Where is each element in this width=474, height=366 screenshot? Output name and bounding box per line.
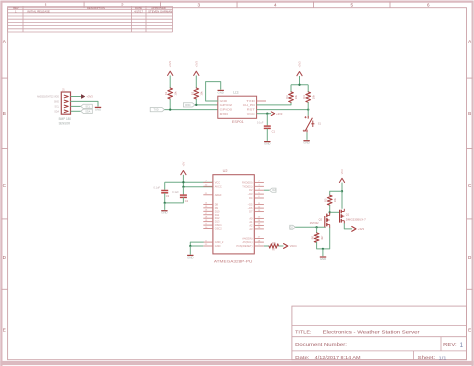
- ground at Q2: [320, 257, 326, 261]
- wire R1 bottom: [169, 99, 171, 110]
- svg-text:A2: A2: [249, 223, 253, 227]
- title block: [292, 306, 467, 361]
- svg-text:+3V3: +3V3: [276, 112, 283, 116]
- svg-text:B: B: [468, 111, 471, 116]
- svg-text:TXD: TXD: [154, 109, 159, 112]
- svg-text:R1: R1: [164, 91, 168, 95]
- ground at ESP01 GND: [218, 90, 224, 94]
- svg-text:GND: GND: [54, 101, 59, 103]
- supply +3V3 above R1: [168, 61, 173, 88]
- svg-text:+3V3: +3V3: [194, 61, 198, 68]
- net flag SDA: [81, 109, 93, 113]
- svg-text:AVCC: AVCC: [215, 184, 222, 188]
- svg-text:R3: R3: [285, 95, 289, 99]
- svg-text:2N7002: 2N7002: [310, 222, 319, 225]
- svg-text:10k: 10k: [200, 91, 204, 96]
- svg-text:Date:: Date:: [295, 355, 310, 360]
- svg-text:1: 1: [460, 342, 464, 349]
- supply +5V above U2: [181, 162, 186, 187]
- wire C2 top: [182, 187, 184, 195]
- svg-text:10k: 10k: [333, 197, 337, 202]
- svg-text:R5: R5: [324, 198, 328, 202]
- wire AVCC rail to U2: [182, 186, 213, 188]
- net flag TXD: [150, 107, 164, 111]
- svg-text:C3: C3: [166, 194, 170, 198]
- svg-text:GND: GND: [161, 211, 167, 215]
- wire RST to R4 and S1: [257, 108, 310, 110]
- wire VCC rail to U2: [165, 181, 213, 183]
- wire J1 pin2 to GND: [71, 101, 99, 106]
- svg-text:+3V3: +3V3: [168, 61, 172, 68]
- svg-text:GND: GND: [303, 141, 309, 145]
- svg-text:~D3: ~D3: [248, 192, 253, 196]
- svg-text:2: 2: [121, 3, 124, 8]
- svg-text:BMP 180: BMP 180: [59, 117, 71, 121]
- svg-text:SENSOR: SENSOR: [59, 122, 71, 126]
- svg-text:1/1: 1/1: [439, 355, 447, 361]
- transistor Q2 2N7002: [310, 212, 330, 228]
- resistor R1: [164, 88, 177, 99]
- svg-text:U3: U3: [233, 90, 239, 95]
- svg-text:D2: D2: [249, 188, 253, 192]
- wire PC6 to R7: [264, 245, 269, 247]
- svg-text:D11: D11: [215, 213, 220, 217]
- svg-text:INITIAL RELEASE: INITIAL RELEASE: [27, 9, 50, 13]
- wire U2 GND pins: [189, 242, 203, 255]
- transistor Q1 DMG2305UX-7: [340, 209, 367, 224]
- svg-text:RXD: RXD: [220, 112, 229, 116]
- svg-text:OSC2: OSC2: [215, 227, 223, 231]
- svg-text:R4: R4: [302, 95, 306, 99]
- wire J1 pin1 to 3V3: [71, 96, 81, 98]
- resistor R7: [269, 241, 279, 252]
- svg-text:GND: GND: [264, 142, 270, 146]
- svg-text:D9: D9: [215, 206, 219, 210]
- ground at J1 pin2: [95, 107, 101, 111]
- wire J1 pin4 to SDA flag: [71, 110, 81, 112]
- resistor R4: [302, 85, 315, 110]
- IC U3 ESP01: [218, 90, 257, 124]
- connector J1 BMP180 sensor: [61, 88, 70, 115]
- supply VCC above Q1: [339, 169, 344, 209]
- svg-text:E: E: [468, 327, 471, 332]
- frame column ticks and numbers: [45, 2, 431, 8]
- svg-text:C2: C2: [185, 199, 189, 203]
- wire R2 bottom: [195, 99, 197, 105]
- svg-text:SCL: SCL: [85, 105, 90, 108]
- svg-text:R7: R7: [272, 248, 276, 252]
- wire node to Q1 gate: [330, 211, 340, 213]
- svg-text:6: 6: [427, 3, 430, 8]
- svg-text:0.1uF: 0.1uF: [172, 190, 179, 194]
- ground at S1: [303, 141, 309, 145]
- svg-text:GND: GND: [218, 90, 224, 94]
- wire C1 to ground: [266, 129, 268, 141]
- wire S1 top: [307, 110, 309, 116]
- svg-text:DESCRIPTION: DESCRIPTION: [87, 6, 105, 10]
- svg-text:Q1: Q1: [346, 213, 350, 216]
- svg-text:E: E: [3, 327, 6, 332]
- IC U2 ATMEGA328P-PU: [203, 169, 264, 264]
- ground at C2 C3: [161, 211, 167, 215]
- svg-text:U2: U2: [223, 169, 228, 173]
- net flag at Q2 gate: [290, 225, 296, 229]
- svg-text:ATMEGA328P-PU: ATMEGA328P-PU: [214, 259, 253, 264]
- supply +3V3 output: [352, 227, 365, 232]
- ground at U2: [187, 255, 193, 259]
- svg-text:Sheet:: Sheet:: [418, 355, 436, 360]
- svg-text:~D5: ~D5: [248, 203, 253, 207]
- svg-text:D13: D13: [215, 220, 220, 224]
- net flag at D2: [269, 188, 276, 192]
- resistor R6: [311, 227, 324, 242]
- capacitor C3: [153, 185, 169, 198]
- svg-text:C1: C1: [272, 130, 276, 134]
- supply +3V3 at ESP01 VCC: [271, 112, 283, 116]
- svg-text:+3V3: +3V3: [87, 95, 94, 99]
- svg-text:Electronics - Weather Station: Electronics - Weather Station Server: [323, 330, 420, 336]
- svg-text:AM2302/DHT22 VDD: AM2302/DHT22 VDD: [37, 96, 59, 99]
- wire ESP01 GND loop: [206, 82, 221, 101]
- svg-text:GND: GND: [320, 257, 326, 261]
- svg-text:+5V: +5V: [181, 162, 185, 167]
- svg-text:CH_PD: CH_PD: [243, 103, 255, 107]
- svg-text:5: 5: [351, 3, 354, 8]
- wire C3 top: [164, 182, 166, 190]
- svg-text:10k: 10k: [272, 241, 277, 245]
- svg-text:SDA: SDA: [85, 110, 90, 113]
- svg-text:10k: 10k: [311, 94, 315, 99]
- wire TXD to GPIO0: [165, 108, 218, 110]
- wire J1 pin3 to SCL flag: [71, 105, 81, 107]
- svg-text:RXD(D0): RXD(D0): [242, 180, 253, 184]
- svg-text:+3V3: +3V3: [358, 227, 365, 231]
- svg-text:GND: GND: [187, 255, 193, 259]
- svg-text:VCC: VCC: [247, 112, 255, 116]
- svg-text:RXD: RXD: [185, 104, 190, 107]
- wire RXD to GPIO2: [195, 104, 218, 106]
- ground at C1: [264, 142, 270, 146]
- svg-text:1: 1: [45, 3, 48, 8]
- svg-text:4/12/2017 8:14 AM: 4/12/2017 8:14 AM: [315, 355, 361, 360]
- svg-text:A3: A3: [249, 227, 253, 231]
- svg-text:SDA: SDA: [54, 110, 59, 113]
- resistor R5: [324, 195, 337, 205]
- svg-text:D10: D10: [215, 209, 220, 213]
- wire S1 to ground: [306, 132, 308, 140]
- wire R5 to node: [329, 205, 331, 213]
- wire VCC branch to R5: [330, 191, 342, 195]
- svg-text:SCL: SCL: [55, 106, 60, 108]
- svg-text:R6: R6: [311, 235, 315, 239]
- svg-text:0.1uF: 0.1uF: [153, 185, 160, 189]
- supply +3V3 above R2: [194, 61, 199, 88]
- svg-text:~D6: ~D6: [248, 206, 253, 210]
- svg-text:DMG2305UX-7: DMG2305UX-7: [346, 218, 367, 221]
- resistor R3: [285, 85, 298, 103]
- capacitor C2: [172, 190, 189, 203]
- svg-text:D12: D12: [215, 216, 220, 220]
- svg-text:3: 3: [198, 3, 201, 8]
- svg-text:GPIO2: GPIO2: [220, 103, 233, 107]
- wire caps to ground: [164, 193, 184, 210]
- svg-text:PC6(/RESET): PC6(/RESET): [236, 244, 252, 248]
- svg-text:VCC: VCC: [340, 169, 344, 175]
- svg-text:REV:: REV:: [443, 342, 457, 347]
- svg-text:GND: GND: [95, 107, 101, 111]
- svg-text:ESP01: ESP01: [232, 120, 244, 124]
- supply +3V3 above R3 R4: [291, 61, 308, 86]
- wire R6 Q2 source to ground: [317, 228, 330, 256]
- svg-text:TITLE:: TITLE:: [295, 330, 311, 336]
- switch S1: [303, 116, 322, 133]
- svg-text:A1: A1: [249, 220, 253, 224]
- wire gate flag to Q2: [295, 226, 326, 228]
- wire R7 to VCC: [279, 245, 284, 247]
- wire VCC to 3V3 and C1: [257, 113, 271, 126]
- wire D2 to flag: [264, 189, 270, 191]
- svg-text:OSC1: OSC1: [215, 223, 223, 227]
- svg-text:B: B: [3, 111, 6, 116]
- svg-text:AREF: AREF: [215, 193, 222, 197]
- svg-text:10k: 10k: [294, 94, 298, 99]
- supply VCC at R7: [284, 244, 297, 249]
- svg-text:S1: S1: [318, 122, 322, 126]
- svg-text:STEVEN GARMAN: STEVEN GARMAN: [148, 9, 172, 13]
- svg-text:4/17/17: 4/17/17: [134, 9, 143, 13]
- pin stub ESP01 TXD: [257, 100, 266, 102]
- svg-text:R2: R2: [190, 91, 194, 95]
- revision table: [8, 6, 173, 32]
- svg-text:10k: 10k: [173, 91, 177, 96]
- svg-text:TXD(D1): TXD(D1): [242, 184, 252, 188]
- svg-text:VCC: VCC: [215, 180, 221, 184]
- connector J1 pin labels: [37, 96, 71, 126]
- resistor R2: [190, 88, 203, 99]
- frame row ticks and letters: [2, 39, 473, 332]
- net flag SCL: [81, 104, 93, 108]
- svg-text:4k7: 4k7: [320, 235, 324, 240]
- svg-text:D4: D4: [249, 196, 253, 200]
- svg-text:D8: D8: [215, 202, 219, 206]
- wire CH_PD to R3: [257, 102, 291, 105]
- svg-text:+3V3: +3V3: [298, 61, 302, 68]
- svg-text:0.1uF: 0.1uF: [257, 120, 264, 124]
- svg-text:VCC: VCC: [290, 244, 297, 248]
- svg-text:GND_2: GND_2: [215, 240, 224, 244]
- supply +3V3 at J1 pin1: [81, 95, 93, 99]
- svg-text:Document Number:: Document Number:: [295, 342, 347, 347]
- svg-text:GND: GND: [215, 244, 221, 248]
- svg-text:A0: A0: [249, 216, 253, 220]
- svg-text:D7: D7: [249, 210, 253, 214]
- svg-text:A5(SCL): A5(SCL): [243, 240, 253, 244]
- svg-text:4: 4: [274, 3, 277, 8]
- wire Q1 source to 3V3 out: [344, 224, 351, 229]
- svg-text:A4(SDA): A4(SDA): [242, 237, 252, 241]
- capacitor C1: [257, 120, 276, 133]
- net flag RXD: [183, 103, 195, 107]
